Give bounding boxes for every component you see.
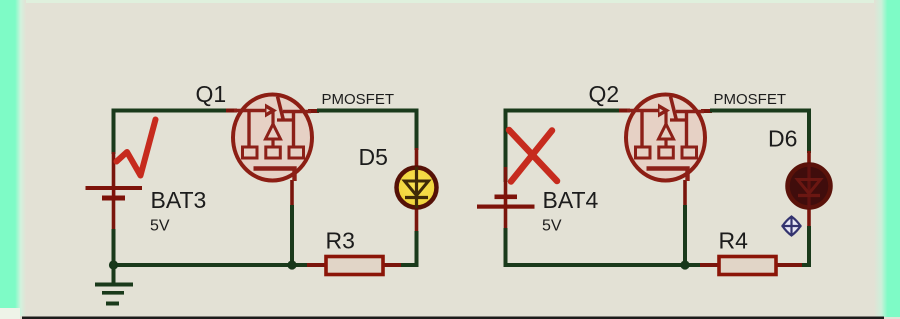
pin stub: BAT4 top pin (504, 167, 508, 196)
wire: D5 cathode down to R3 right (399, 231, 417, 265)
pin stub: Q2 drain pin (right) (701, 109, 712, 113)
wire: BAT3 negative to ground rail (112, 229, 116, 266)
svg-text:Q2: Q2 (589, 81, 620, 107)
probe marker (blue diamond cross) (782, 216, 802, 236)
wire: BAT3 positive to top rail and Q1 source (net VDD1) (114, 111, 232, 155)
resistor R4 (719, 257, 776, 275)
junction node: gate/R3/rail junction left circuit (287, 260, 296, 269)
pin stub: Q1 source pin (left) (226, 109, 237, 113)
pin stub: BAT3 positive pin (112, 152, 116, 188)
error-indicator X mark on BAT4 (509, 130, 557, 182)
pin stub: BAT4 bottom pin (504, 207, 508, 230)
pin stub: R4 right pin (777, 263, 802, 267)
battery BAT3 (86, 186, 143, 201)
svg-text:R4: R4 (719, 228, 749, 254)
junction node: gate/R4/rail junction right circuit (680, 260, 689, 269)
wire: D6 cathode down to R4 right (800, 226, 809, 265)
pin stub: R4 left pin (698, 263, 719, 267)
pin stub: R3 left pin (305, 263, 326, 267)
resistor R3 (326, 257, 383, 275)
pin stub: D6 anode pin (807, 151, 811, 165)
svg-text:5V: 5V (542, 218, 562, 235)
pin stub: BAT3 negative pin (112, 198, 116, 231)
wire: bottom ground rail of left circuit (net GND) (112, 263, 307, 267)
wire: BAT4 top to top rail and Q2 source (net VDD2) (506, 111, 625, 183)
svg-text:Q1: Q1 (196, 81, 227, 107)
wire: Q1 gate down to ground rail (290, 205, 294, 263)
ok-indicator checkmark on BAT3 (117, 120, 156, 176)
wire: Q2 gate down to bottom rail (683, 205, 687, 263)
svg-text:BAT4: BAT4 (543, 187, 599, 213)
pin stub: D5 anode pin (415, 148, 419, 167)
junction node: battery/ground/rail junction (109, 260, 118, 269)
pin stub: Q2 source pin (left) (619, 109, 630, 113)
svg-text:R3: R3 (326, 228, 355, 254)
wire: Q1 drain to D5 anode (317, 111, 417, 151)
svg-text:D5: D5 (359, 144, 388, 170)
op-amp-circle body: transistor Q1 (PMOSFET) (233, 95, 312, 182)
diode D6 (LED, off) (788, 164, 831, 208)
svg-text:D6: D6 (768, 126, 797, 152)
pin stub: D6 cathode pin (807, 207, 811, 228)
svg-text:PMOSFET: PMOSFET (322, 91, 395, 108)
wire: BAT4 bottom to rail (504, 228, 508, 267)
svg-text:5V: 5V (150, 218, 170, 235)
wire: bottom rail of right circuit (506, 263, 701, 267)
pin stub: Q1 gate pin (bottom) (290, 180, 294, 207)
pin stub: Q2 gate pin (bottom) (683, 180, 687, 207)
diode D5 (LED, lit) (397, 167, 437, 208)
svg-text:PMOSFET: PMOSFET (714, 91, 787, 108)
pin stub: R3 right pin (384, 263, 401, 267)
pin stub: D5 cathode pin (415, 208, 419, 233)
ground (95, 264, 133, 306)
transistor Q2 (PMOSFET) (626, 95, 705, 182)
pin stub: Q1 drain pin (right) (308, 109, 319, 113)
wire: Q2 drain to D6 anode (710, 111, 809, 154)
svg-text:BAT3: BAT3 (151, 187, 207, 213)
battery BAT4 (reversed) (477, 195, 535, 209)
